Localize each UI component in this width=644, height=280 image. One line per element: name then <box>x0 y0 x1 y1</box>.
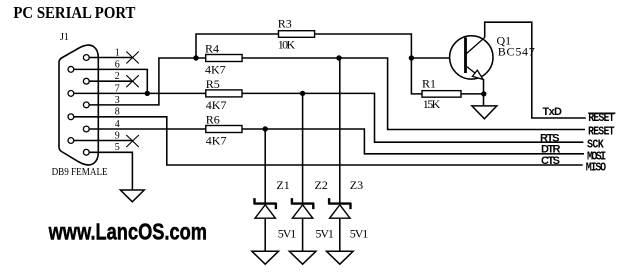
svg-text:RTS: RTS <box>540 132 560 144</box>
svg-text:PC SERIAL PORT: PC SERIAL PORT <box>13 3 136 22</box>
svg-text:MISO: MISO <box>586 162 607 175</box>
svg-text:10K: 10K <box>278 37 296 51</box>
svg-text:5V1: 5V1 <box>278 227 297 241</box>
svg-text:RESET: RESET <box>588 126 615 139</box>
svg-text:R6: R6 <box>206 112 220 126</box>
svg-text:Z1: Z1 <box>276 178 289 192</box>
svg-text:R4: R4 <box>205 41 219 55</box>
svg-text:15K: 15K <box>423 97 441 111</box>
svg-text:BC547: BC547 <box>498 45 535 59</box>
svg-text:R5: R5 <box>206 77 220 91</box>
svg-text:Z3: Z3 <box>350 178 363 192</box>
svg-text:R1: R1 <box>422 76 436 90</box>
svg-text:7: 7 <box>115 83 120 94</box>
svg-text:9: 9 <box>115 130 120 141</box>
svg-text:4K7: 4K7 <box>206 98 227 112</box>
svg-text:8: 8 <box>115 107 120 118</box>
svg-text:DTR: DTR <box>541 144 561 156</box>
svg-text:TxD: TxD <box>543 106 563 118</box>
svg-text:5V1: 5V1 <box>350 227 369 241</box>
svg-text:J1: J1 <box>60 32 69 43</box>
svg-text:4K7: 4K7 <box>206 134 227 148</box>
svg-text:1: 1 <box>115 47 120 58</box>
svg-text:3: 3 <box>115 95 120 106</box>
svg-text:Z2: Z2 <box>315 178 328 192</box>
svg-text:5: 5 <box>115 142 120 153</box>
svg-text:5V1: 5V1 <box>315 227 334 241</box>
svg-text:RESET: RESET <box>588 113 615 126</box>
svg-text:4K7: 4K7 <box>205 63 226 77</box>
svg-text:2: 2 <box>115 71 120 82</box>
svg-text:4: 4 <box>115 119 120 130</box>
svg-text:www.LancOS.com: www.LancOS.com <box>48 219 207 245</box>
svg-text:R3: R3 <box>278 16 292 30</box>
svg-text:CTS: CTS <box>541 155 560 167</box>
svg-text:DB9 FEMALE: DB9 FEMALE <box>52 167 108 178</box>
svg-text:6: 6 <box>115 59 120 70</box>
